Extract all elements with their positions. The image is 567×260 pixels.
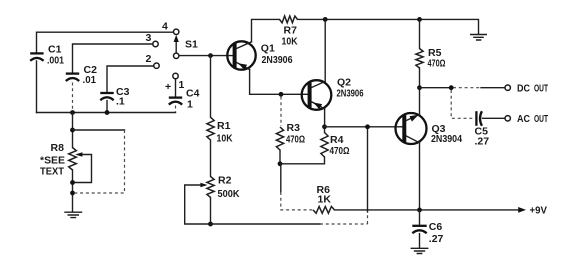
svg-text:470Ω: 470Ω — [428, 58, 446, 70]
junction R2 bottom — [208, 222, 213, 227]
switch S1 contact 3 — [146, 32, 159, 47]
dashed lead to C5 — [451, 90, 474, 118]
junction Q1-Q2 node — [279, 92, 284, 97]
wire R1 to R2 — [210, 140, 212, 176]
wire +9V rail — [335, 205, 548, 217]
wire Q3 emitter up to DC node — [419, 88, 421, 115]
svg-text:+: + — [165, 81, 171, 93]
capacitor C4 (electrolytic) — [165, 79, 200, 111]
junction rail-Q2 — [323, 17, 328, 22]
svg-text:S1: S1 — [185, 39, 198, 51]
svg-text:10K: 10K — [282, 36, 298, 48]
terminal DC OUT — [505, 83, 548, 95]
resistor R1 10K — [207, 117, 233, 144]
svg-text:4: 4 — [162, 21, 168, 33]
wire R8 wiper return — [73, 152, 92, 182]
wire feedback run R2 to Q3 base node — [211, 127, 368, 224]
wire S1 pole to Q1 base — [179, 55, 233, 57]
wire R3 to bottom junction — [279, 150, 281, 164]
dashed lead node to R3 — [280, 97, 282, 127]
svg-text:.27: .27 — [475, 136, 490, 148]
junction R3/R4 bottom — [278, 161, 283, 166]
wire C6 to ground — [419, 234, 421, 248]
capacitor C1 — [30, 44, 64, 67]
wire Q2 emitter down to node — [324, 109, 326, 127]
junction Q2 emitter / R4 — [322, 124, 327, 129]
svg-text:10K: 10K — [217, 133, 233, 145]
wire Q2/Q3 base link — [325, 126, 403, 128]
junction node S1/R1/Q1 — [208, 53, 213, 58]
svg-text:1K: 1K — [318, 194, 332, 206]
transistor Q1 2N3906 — [227, 41, 292, 70]
svg-text:OUT: OUT — [534, 113, 548, 125]
capacitor C2 — [66, 64, 97, 86]
junction +9V rail / C6 — [417, 208, 422, 213]
wire C3 to bus — [106, 101, 108, 113]
wire Q1 emitter to Q2 base — [250, 70, 308, 95]
wire top-left rail to S1 contact 4 — [37, 32, 173, 112]
junction feedback node — [365, 124, 370, 129]
wire node to R6 (partly dashed) — [281, 164, 313, 210]
svg-text:C6: C6 — [429, 221, 443, 233]
junction R8 wiper — [70, 180, 75, 185]
junction R8 top box — [70, 128, 75, 133]
wire Q2 collector up to rail — [324, 19, 326, 81]
svg-text:R1: R1 — [217, 120, 231, 132]
wire C2 branch to S1 contact 3 — [73, 44, 153, 73]
wire C5 to AC OUT — [483, 117, 505, 119]
svg-text:OUT: OUT — [534, 83, 548, 95]
svg-text:.001: .001 — [47, 55, 64, 67]
resistor R3 470ohm — [276, 122, 305, 150]
svg-text:470Ω: 470Ω — [330, 145, 350, 157]
transistor Q3 2N3904 — [396, 113, 463, 145]
wire DC out line — [420, 87, 505, 89]
ground below C6 — [411, 248, 427, 253]
junction AC branch — [449, 85, 454, 90]
resistor R8 (pot, see text) — [40, 142, 76, 178]
junction DC node — [417, 85, 422, 90]
wire R2 bottom — [210, 197, 212, 224]
ground top right — [471, 35, 487, 41]
resistor R2 500K pot — [207, 175, 240, 201]
svg-text:3: 3 — [146, 32, 152, 44]
svg-text:.27: .27 — [429, 233, 444, 245]
capacitor C3 — [100, 86, 129, 108]
switch S1 contact 2 — [146, 53, 160, 68]
svg-text:1: 1 — [187, 99, 193, 111]
switch S1 contact 1 — [173, 73, 185, 91]
svg-text:Q1: Q1 — [261, 43, 275, 55]
svg-text:2N3906: 2N3906 — [337, 88, 364, 100]
svg-text:500K: 500K — [218, 188, 240, 200]
capacitor C5 .27 — [475, 111, 490, 147]
wire Q1 collector up to rail — [252, 19, 280, 41]
wire Q3 collector down to +9V rail — [419, 143, 421, 210]
wire capacitor bottom bus — [37, 112, 176, 114]
resistor R7 10K — [280, 16, 298, 48]
wire C3 branch to S1 contact 2 — [107, 66, 153, 92]
svg-text:TEXT: TEXT — [40, 166, 65, 178]
svg-text:1: 1 — [179, 79, 185, 91]
svg-text:R3: R3 — [287, 122, 301, 134]
junction R8 box bottom — [70, 191, 75, 196]
switch S1 contact 4 — [162, 21, 179, 35]
resistor R5 470ohm — [416, 19, 446, 87]
junction bus-C3 — [105, 110, 110, 115]
svg-text:2: 2 — [146, 53, 152, 65]
ground below R8 — [65, 212, 82, 217]
wire R2 wiper return — [185, 183, 211, 224]
wire bus down to R8 — [72, 113, 74, 148]
svg-text:AC: AC — [517, 113, 530, 125]
svg-text:R8: R8 — [51, 142, 65, 154]
wire Q1 base node down to R1 — [210, 56, 212, 118]
resistor R6 1K — [313, 184, 335, 213]
junction bus-C2 — [70, 110, 75, 115]
capacitor C6 .27 — [412, 210, 443, 245]
junction rail-R5 — [417, 17, 422, 22]
svg-text:.01: .01 — [83, 74, 97, 86]
svg-text:DC: DC — [517, 83, 530, 95]
svg-text:2N3904: 2N3904 — [431, 133, 462, 145]
terminal AC OUT — [505, 113, 548, 125]
dashed lead C2 to bus — [72, 83, 74, 112]
wire R8 to ground — [72, 170, 74, 212]
dashed lead C4 to bus — [175, 106, 177, 113]
dashed box around R8 — [73, 130, 125, 193]
svg-text:+9V: +9V — [530, 205, 548, 217]
svg-text:R2: R2 — [218, 175, 232, 187]
resistor R4 470ohm — [280, 127, 350, 164]
svg-text:2N3906: 2N3906 — [262, 54, 293, 66]
svg-text:470Ω: 470Ω — [286, 134, 305, 146]
switch S1 pole and arm — [174, 35, 199, 59]
transistor Q2 2N3906 — [302, 77, 364, 110]
wire top ground rail — [298, 19, 479, 34]
svg-text:.1: .1 — [116, 96, 125, 108]
